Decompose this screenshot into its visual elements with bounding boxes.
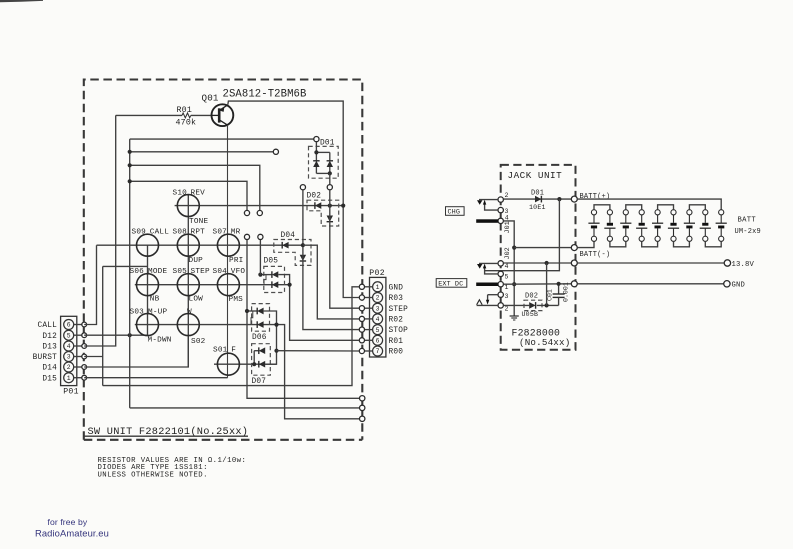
svg-text:for free by: for free by <box>48 517 88 527</box>
svg-text:R01: R01 <box>389 338 404 346</box>
junction D05 upper left <box>258 273 262 277</box>
jack J01 pin 4 <box>498 218 503 223</box>
P02 boundary contact circle <box>359 327 364 332</box>
wire D07 node to P02 pin7 R00 <box>277 350 360 352</box>
junction D07 output node <box>274 349 278 353</box>
svg-text:J02: J02 <box>504 247 512 259</box>
wire battery bottom bridge <box>642 241 658 246</box>
diode D02 element a (left pointing) <box>315 202 321 209</box>
wire J01 pin4 to BATT(-) node <box>503 221 514 316</box>
svg-text:S01: S01 <box>213 347 228 355</box>
connector P01 pin 6 <box>64 320 74 330</box>
wire bus line L4 to upper contact <box>130 181 247 210</box>
contact circle at D01 top <box>314 137 319 142</box>
wire D07 upper diode line <box>254 350 259 352</box>
jack J02 pin 3 <box>498 292 503 297</box>
svg-text:GND: GND <box>732 282 746 290</box>
svg-text:M-DWN: M-DWN <box>148 337 172 345</box>
battery cell 2 <box>607 210 612 215</box>
junction D06 lower crossing <box>274 323 278 327</box>
switch S03 <box>137 314 159 336</box>
wire battery bottom bridge <box>705 241 721 246</box>
P01 boundary contact circle <box>82 344 87 349</box>
junction D02 horizontal at vertical diode <box>328 204 332 208</box>
svg-text:4: 4 <box>67 343 71 350</box>
wire contact chain through D06 to bottom-right contact <box>247 240 359 399</box>
wire battery bottom bridge <box>674 241 690 246</box>
svg-text:5: 5 <box>505 274 509 281</box>
svg-text:D02: D02 <box>525 292 538 300</box>
svg-text:2SA812-T2BM6B: 2SA812-T2BM6B <box>223 89 307 101</box>
SW UNIT enclosure dashed border <box>84 80 363 440</box>
diode D04 element a (left pointing) <box>282 242 288 249</box>
P01 boundary contact circle <box>82 365 87 370</box>
wire D06 right side down to D07 node <box>264 311 277 351</box>
svg-text:2: 2 <box>505 192 509 199</box>
svg-text:EXT DC: EXT DC <box>438 281 463 289</box>
J01 spring contact arrow pin3 <box>485 203 498 210</box>
junction BATT(-) node <box>512 246 516 250</box>
contact circle on SW border (chain net) <box>360 396 365 401</box>
wire switch row S06 S05 S04 to D05 <box>135 284 290 286</box>
J01 tip contact triangle <box>477 200 482 205</box>
switch S01 <box>217 353 239 375</box>
svg-text:BATT(-): BATT(-) <box>580 251 611 259</box>
P01 boundary contact circle <box>82 354 87 359</box>
svg-text:LOW: LOW <box>189 296 204 304</box>
svg-text:STOP: STOP <box>389 327 409 335</box>
svg-text:3: 3 <box>505 293 509 300</box>
svg-text:D07: D07 <box>252 378 267 386</box>
J02 spring contact arrow pin5 <box>485 267 498 274</box>
svg-text:1: 1 <box>376 284 380 291</box>
switch S10 <box>177 195 199 217</box>
wire D07 left step to row <box>253 351 255 365</box>
jack J02 pin 4 <box>498 261 503 266</box>
svg-text:W: W <box>187 308 192 316</box>
svg-text:P01: P01 <box>63 388 79 397</box>
wire left matrix bus vertical <box>129 139 131 408</box>
jack J02 pin 1 <box>498 282 503 287</box>
svg-text:JACK UNIT: JACK UNIT <box>508 170 563 181</box>
contact circle GND <box>571 281 577 287</box>
connector P01 pin 1 <box>64 373 74 383</box>
JACK UNIT enclosure dashed border <box>501 165 576 350</box>
diode pack D07 dashed box <box>252 344 271 376</box>
contact circle above D06 chain <box>244 234 249 239</box>
diode D06 element a (left pointing) <box>257 308 263 315</box>
connector P01 pin 4 <box>64 341 74 351</box>
svg-text:MODE: MODE <box>148 268 167 276</box>
wire battery top bridge <box>658 205 674 210</box>
svg-text:C01: C01 <box>547 289 554 301</box>
wire J02 pin4 line through tip to 13.8V rail <box>479 262 498 264</box>
svg-text:BATT: BATT <box>738 217 757 225</box>
junction chain at D06 <box>245 309 249 313</box>
wire switch row S09 S08 S07 to D04 <box>97 244 303 246</box>
svg-text:UM-2x9: UM-2x9 <box>735 228 761 236</box>
wire net D15: P01 pin1 to S01 bottom <box>84 377 227 379</box>
diode pack D01 dashed box <box>309 146 339 178</box>
contact circle on SW border (D12 net) <box>360 405 365 410</box>
svg-text:S05: S05 <box>173 268 188 276</box>
J01 plug sleeve thick bar <box>476 219 498 223</box>
P01 boundary contact circle <box>82 333 87 338</box>
svg-text:R02: R02 <box>389 317 404 325</box>
battery cell 4 <box>639 210 644 215</box>
diode D07 element a (left pointing) <box>259 347 265 354</box>
svg-text:D01: D01 <box>320 140 335 148</box>
svg-text:D13: D13 <box>42 344 57 352</box>
transistor Q01 symbol <box>212 104 234 126</box>
svg-text:D14: D14 <box>42 365 57 373</box>
svg-text:STEP: STEP <box>389 306 409 314</box>
svg-text:D15: D15 <box>42 375 57 383</box>
wire net BURST: P01 pin3 vertical with branch to S09/S06 stem and bottom GND rail <box>84 356 103 358</box>
wire column S09 S06 S03 stems <box>147 245 149 335</box>
connector P01 pin 3 <box>64 352 74 362</box>
wire J01 pin2 to diode D01 and BATT(+) <box>503 198 571 200</box>
svg-text:UNLESS OTHERWISE NOTED.: UNLESS OTHERWISE NOTED. <box>98 471 208 479</box>
diode D02 dashed box <box>524 300 542 310</box>
J02 tip contact triangle <box>477 264 482 269</box>
contact circle BATT(+) <box>571 196 577 202</box>
battery cell 3 <box>623 210 628 215</box>
svg-text:CHG: CHG <box>448 209 461 217</box>
svg-text:S04: S04 <box>213 268 228 276</box>
svg-text:R03: R03 <box>389 295 404 303</box>
connector P02 pin 4 <box>373 314 383 324</box>
wire D05 right side join to P02 pin6 R01 <box>278 275 359 341</box>
wire D01 bottom bracket <box>315 167 317 173</box>
svg-text:1: 1 <box>67 375 71 382</box>
svg-text:0.001: 0.001 <box>563 282 570 302</box>
wire bus line L2 to contact <box>130 151 274 153</box>
SW UNIT label underline <box>85 435 249 437</box>
J02 tip caret symbol <box>477 300 483 305</box>
junction 13.8V rail at D02 riser <box>545 261 549 265</box>
wire Q01 upper lead to collector rail and down to P02 pin2 R03 <box>228 101 359 297</box>
svg-text:1: 1 <box>505 284 509 291</box>
contact circle on SW border (S03 row net) <box>360 416 365 421</box>
svg-text:NB: NB <box>150 296 160 304</box>
svg-text:MR: MR <box>231 229 241 237</box>
switch S04 <box>217 274 239 296</box>
junction collector rail D02 <box>341 204 345 208</box>
wire contact pair to D05 <box>259 240 261 275</box>
wire D05 upper diode line <box>260 274 272 276</box>
wire D06 internal step <box>251 311 253 325</box>
contact circle D04 branch top <box>300 185 305 190</box>
ground symbol <box>510 315 519 317</box>
connector P01 pin 5 <box>64 330 74 340</box>
CHG label box <box>446 207 465 216</box>
svg-text:D02: D02 <box>307 193 322 201</box>
wire net D12 lower branch to right contact <box>130 407 360 409</box>
P02 boundary contact circle <box>359 306 364 311</box>
connector P02 pin 2 <box>373 293 383 303</box>
svg-text:STEP: STEP <box>191 268 210 276</box>
wire S10 row line through D02 to collector rail <box>175 205 344 207</box>
wire Q01 lower lead down through S07 S04 S01 column <box>227 125 229 378</box>
wire D01 internals <box>315 142 317 161</box>
diode D02 element b (down pointing) <box>327 216 333 222</box>
junction D07 on S01 row <box>252 362 256 366</box>
J02 pin3 spring contact arrow down <box>488 294 498 296</box>
wire J01 pin2 line through tip <box>479 199 498 201</box>
wire BATT(-) bottom rail <box>577 241 594 247</box>
junction D05 lower right <box>288 283 292 287</box>
wire jumper D04 node to P02 pin4 R02 <box>303 245 359 319</box>
junction C01 top on GND row <box>557 282 561 286</box>
svg-text:S10: S10 <box>173 189 188 197</box>
svg-text:2: 2 <box>376 295 380 302</box>
svg-text:S07: S07 <box>213 229 228 237</box>
svg-text:S09: S09 <box>132 229 147 237</box>
svg-text:CALL: CALL <box>37 322 57 330</box>
wire Q01 base from left bus <box>116 114 182 116</box>
svg-text:REV: REV <box>191 189 206 197</box>
junction D04 node <box>301 243 305 247</box>
P02 boundary contact circle <box>359 284 364 289</box>
svg-text:7: 7 <box>376 348 380 355</box>
svg-text:U05B: U05B <box>522 311 539 318</box>
wire bus line L1 to contact <box>130 138 314 140</box>
connector P02 pin 1 <box>373 282 383 292</box>
junction charge line <box>557 197 561 201</box>
svg-text:GND: GND <box>389 284 404 292</box>
wire D01-D02 vertical to P02 pin3 STEP <box>330 190 360 308</box>
wire D01 bottom to contact <box>329 173 331 184</box>
svg-text:2: 2 <box>505 305 509 312</box>
svg-text:13.8V: 13.8V <box>732 261 755 269</box>
contact circle L2 end <box>273 149 278 154</box>
wire D02 cathode node <box>537 304 559 306</box>
P02 boundary contact circle <box>359 338 364 343</box>
svg-text:J01: J01 <box>504 221 512 233</box>
switch S09 <box>137 234 159 256</box>
wire GND output <box>577 283 723 285</box>
diode D04 element b (down pointing) <box>300 255 306 261</box>
switch S08 <box>177 234 199 256</box>
terminal circle 13.8V <box>724 260 730 266</box>
wire BATT(-) to edge <box>514 247 571 249</box>
wire S10 top stub <box>187 195 189 196</box>
svg-text:RadioAmateur.eu: RadioAmateur.eu <box>35 527 109 538</box>
diode D05 element a (left pointing) <box>272 271 278 278</box>
svg-text:DUP: DUP <box>189 257 204 265</box>
wire 13.8V output <box>577 262 724 264</box>
diode pack D06 dashed box <box>252 304 270 332</box>
svg-text:5: 5 <box>376 327 380 334</box>
svg-text:D04: D04 <box>281 232 296 240</box>
connector P02 pin 6 <box>373 335 383 345</box>
wire net CALL: P01 pin6 up to S09 row <box>84 245 96 324</box>
svg-text:CALL: CALL <box>150 229 169 237</box>
switch S02 <box>177 314 199 336</box>
svg-text:4: 4 <box>376 316 380 323</box>
battery cell 5 <box>655 210 660 215</box>
diode pack D02 dashed boxes <box>307 200 339 226</box>
svg-text:D01: D01 <box>531 190 544 198</box>
diode D01 element a <box>313 161 319 167</box>
svg-text:10E1: 10E1 <box>529 204 546 211</box>
battery cell 7 <box>687 210 692 215</box>
junction D12 bus <box>128 333 132 337</box>
wire net D12: P01 pin5 to S03 bottom <box>84 334 148 336</box>
capacitor C01 <box>558 284 560 294</box>
wire battery top bridge <box>689 205 705 210</box>
svg-text:2: 2 <box>67 364 71 371</box>
switch S05 <box>177 274 199 296</box>
EXT DC label box <box>436 279 467 288</box>
svg-text:Q01: Q01 <box>202 93 219 104</box>
terminal circle GND <box>724 281 730 287</box>
jack J01 pin 2 <box>498 197 503 202</box>
diode D07 element b (left pointing) <box>259 361 265 368</box>
svg-text:5: 5 <box>67 332 71 339</box>
connector P02 pin 3 <box>373 303 383 313</box>
wire charge return loop to J02 tip spring <box>485 199 560 271</box>
diode D05 element b (left pointing) <box>272 281 278 288</box>
svg-text:F: F <box>231 347 236 355</box>
contact circle L3 end <box>257 210 262 215</box>
svg-text:S08: S08 <box>173 229 188 237</box>
battery cell 1 <box>591 210 596 215</box>
diode pack D05 dashed box <box>264 266 285 292</box>
svg-text:4: 4 <box>505 263 509 270</box>
wire J02 pin2 tip line to diode D02 <box>477 304 498 306</box>
scan artifact top-left edge <box>0 0 43 2</box>
connector P01 pin 2 <box>64 362 74 372</box>
junction D02 riser <box>545 303 549 307</box>
contact circle BATT(-) <box>571 245 577 251</box>
wire switch row S03 S02 through D06 then to lower contact <box>135 325 359 419</box>
diode D01 element b <box>327 161 333 167</box>
svg-text:PRI: PRI <box>229 257 243 265</box>
svg-text:D06: D06 <box>252 334 267 342</box>
contact circle above D05 <box>258 234 263 239</box>
jack J01 pin 3 <box>498 207 503 212</box>
wire D04 vertical from contact through to P02 pin5 STOP <box>303 190 359 330</box>
connector P01 body <box>61 316 77 385</box>
jack J02 pin 2 <box>498 303 503 308</box>
svg-text:S02: S02 <box>191 338 206 346</box>
svg-text:BURST: BURST <box>33 354 58 362</box>
connector P02 body <box>370 277 386 357</box>
wire BATT(+) top rail <box>577 199 721 210</box>
diode D02 (jack) <box>529 302 535 309</box>
svg-text:R00: R00 <box>389 349 404 357</box>
P02 boundary contact circle <box>359 348 364 353</box>
wire net D13: P01 pin4 up left bus to R01 <box>84 115 116 346</box>
wire D06 upper diode line <box>247 310 257 312</box>
connector P02 pin 7 <box>373 346 383 356</box>
wire riser to 13.8V rail <box>546 263 548 305</box>
svg-text:SW UNIT F2822101(No.25xx): SW UNIT F2822101(No.25xx) <box>88 426 249 438</box>
wire D07 right bracket <box>265 363 276 365</box>
wire bus line L3 to upper contact <box>130 165 260 210</box>
svg-text:R01: R01 <box>177 106 193 115</box>
junction GND row <box>512 282 516 286</box>
svg-text:PMS: PMS <box>229 296 244 304</box>
svg-text:M-UP: M-UP <box>148 308 167 316</box>
svg-text:P02: P02 <box>369 269 385 278</box>
diode D06 element b (left pointing) <box>257 321 263 328</box>
wire battery top bridge <box>626 205 642 210</box>
switch S07 <box>217 234 239 256</box>
wire switch row S01 through D07 <box>214 351 277 365</box>
svg-text:RPT: RPT <box>191 229 206 237</box>
svg-text:6: 6 <box>376 338 380 345</box>
battery cell 9 <box>719 210 724 215</box>
svg-text:470k: 470k <box>176 118 197 128</box>
battery cell 6 <box>671 210 676 215</box>
wire battery bottom bridge <box>610 241 626 246</box>
wire battery top bridge <box>594 205 610 210</box>
svg-text:3: 3 <box>67 354 71 361</box>
wire net D14: P01 pin2 to S02 bottom <box>84 335 188 367</box>
svg-text:S03: S03 <box>130 308 145 316</box>
wire D05 internal step <box>264 275 266 285</box>
svg-text:TONE: TONE <box>189 218 208 226</box>
P02 boundary contact circle <box>359 295 364 300</box>
wire column S10 S08 S05 S02 stems <box>187 195 189 367</box>
P02 boundary contact circle <box>359 316 364 321</box>
svg-text:(No.54xx): (No.54xx) <box>519 337 570 348</box>
diode D01 (jack) <box>535 196 541 203</box>
battery cell 8 <box>703 210 708 215</box>
svg-text:D05: D05 <box>264 257 279 265</box>
P01 boundary contact circle <box>82 322 87 327</box>
svg-text:6: 6 <box>67 322 71 329</box>
resistor R01 symbol <box>182 113 191 118</box>
contact circle D01 bottom <box>327 185 332 190</box>
connector P02 pin 5 <box>373 325 383 335</box>
diode pack D04 dashed boxes <box>274 240 311 266</box>
J02 plug sleeve thick bar <box>476 283 498 287</box>
svg-text:S06: S06 <box>130 268 145 276</box>
contact circle L4 end <box>244 210 249 215</box>
wire J02 pin1 GND row <box>503 283 571 285</box>
P01 boundary contact circle <box>82 375 87 380</box>
jack J02 pin 5 <box>498 271 503 276</box>
wire bottom rail to P02 GND <box>103 287 360 386</box>
svg-text:VFO: VFO <box>231 268 246 276</box>
svg-text:3: 3 <box>376 305 380 312</box>
switch S06 <box>137 274 159 296</box>
contact circle 13.8V <box>571 260 577 266</box>
svg-text:D12: D12 <box>42 333 57 341</box>
